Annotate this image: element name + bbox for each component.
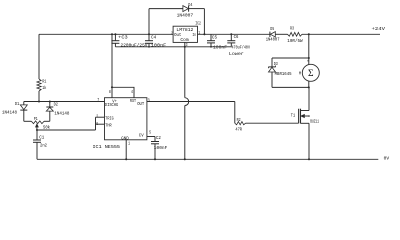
wire down to motor top bbox=[308, 58, 310, 65]
wire hop over OUT wire bbox=[185, 98, 189, 106]
svg-text:2200uF/25V: 2200uF/25V bbox=[121, 42, 148, 48]
svg-text:P1: P1 bbox=[34, 116, 38, 122]
transistor T1 body arrow bbox=[301, 115, 304, 118]
svg-text:47R: 47R bbox=[235, 127, 242, 133]
svg-text:+C3: +C3 bbox=[118, 35, 128, 41]
wire CV pin to C2 bbox=[147, 136, 155, 138]
junction motor branch on rail bbox=[308, 33, 310, 35]
wire D1 anode lead bbox=[23, 102, 25, 105]
wire D4 left leg bbox=[148, 9, 150, 35]
wire R2 to gate bbox=[246, 122, 299, 124]
wire IC2 Com down upper bbox=[184, 42, 186, 97]
svg-text:R2: R2 bbox=[237, 117, 241, 123]
resistor R1 bbox=[37, 79, 41, 91]
wire IC2 Com down lower bbox=[184, 106, 186, 160]
svg-text:D5: D5 bbox=[270, 26, 274, 32]
capacitor C3 2200uF/25V bbox=[114, 34, 116, 40]
wire top rail middle segment (raw +24V to regulator In) bbox=[198, 33, 270, 35]
svg-text:2: 2 bbox=[96, 114, 98, 120]
wire D3 cathode lead bbox=[271, 72, 273, 87]
wire D3 anode lead bbox=[271, 58, 273, 67]
svg-text:470uF/40V: 470uF/40V bbox=[232, 44, 251, 50]
diode D5 1N4007 bbox=[269, 32, 271, 37]
motor M1 circle bbox=[302, 64, 319, 81]
junction D3 top bbox=[308, 57, 310, 59]
wire D3 bottom bbox=[272, 86, 309, 88]
junction C4 tie bbox=[148, 46, 150, 48]
svg-text:T1: T1 bbox=[291, 112, 296, 118]
capacitor C2 100nF bbox=[151, 141, 159, 143]
svg-text:2n2: 2n2 bbox=[40, 142, 47, 148]
junction C3 on rail bbox=[114, 33, 116, 35]
svg-text:10R/5W: 10R/5W bbox=[287, 38, 303, 44]
op-amp-box IC2 LM7812 body bbox=[173, 26, 197, 42]
svg-text:1: 1 bbox=[198, 30, 200, 36]
potentiometer P1 body bbox=[31, 121, 44, 124]
svg-text:100nF: 100nF bbox=[154, 145, 168, 151]
wire D4 right leg bbox=[203, 9, 205, 35]
svg-text:+: + bbox=[307, 60, 309, 65]
svg-text:100nF: 100nF bbox=[151, 42, 167, 48]
capacitor C5 100nF bbox=[210, 34, 212, 40]
wire IC1 GND pin to rail bbox=[125, 140, 127, 160]
resistor R3 bbox=[288, 32, 303, 36]
svg-text:C4: C4 bbox=[151, 34, 156, 40]
wire ground rail 0V bbox=[37, 158, 378, 160]
svg-text:OUT: OUT bbox=[137, 101, 144, 107]
svg-text:D1: D1 bbox=[15, 101, 20, 107]
junction T1 body bbox=[308, 115, 310, 117]
svg-text:3: 3 bbox=[148, 98, 150, 104]
svg-text:2: 2 bbox=[171, 30, 173, 36]
svg-text:R1: R1 bbox=[42, 78, 46, 84]
wire top rail left segment (+12V net) bbox=[39, 33, 173, 35]
svg-text:D3: D3 bbox=[274, 61, 278, 67]
capacitor C4 100nF bbox=[148, 34, 150, 40]
wire wiper junction to pins bbox=[37, 129, 96, 131]
svg-text:M: M bbox=[299, 71, 301, 77]
svg-text:TRIG: TRIG bbox=[105, 115, 114, 121]
wire T1 drain up bbox=[308, 87, 310, 110]
junction V+ drop on rail bbox=[111, 33, 113, 35]
diode D1 1N4148 bbox=[20, 105, 27, 110]
svg-text:In: In bbox=[192, 32, 196, 38]
wire +12V rail down to IC1 supply loop bbox=[111, 34, 113, 87]
wire pins connector vertical bbox=[95, 117, 97, 130]
svg-text:1N4007: 1N4007 bbox=[177, 13, 194, 19]
wire R3 to +24V terminal bbox=[302, 33, 380, 35]
svg-text:LM7812: LM7812 bbox=[176, 27, 193, 33]
wire T1 drain lead bbox=[300, 110, 309, 112]
diode D4 1N4007 bbox=[183, 6, 189, 12]
wire D4 top left bbox=[149, 8, 183, 10]
svg-text:1N4148: 1N4148 bbox=[2, 110, 17, 116]
svg-text:Σ: Σ bbox=[308, 69, 314, 79]
svg-text:DISCHG: DISCHG bbox=[105, 102, 119, 108]
junction C5 tie bbox=[210, 46, 212, 48]
wire R1 bottom to node A bbox=[38, 91, 40, 102]
svg-text:8: 8 bbox=[109, 89, 111, 95]
svg-text:Lower: Lower bbox=[229, 51, 244, 57]
svg-text:C5: C5 bbox=[212, 35, 217, 41]
svg-text:1N4148: 1N4148 bbox=[54, 110, 69, 116]
diode D2 1N4148 bbox=[46, 106, 53, 108]
wire IC1 OUT bbox=[147, 101, 235, 103]
junction D2 node A bbox=[49, 100, 51, 102]
junction IC2 Com on ground rail bbox=[184, 158, 186, 160]
svg-text:5: 5 bbox=[149, 130, 151, 136]
svg-text:IC2: IC2 bbox=[195, 20, 201, 26]
wire T1 source down bbox=[308, 123, 310, 159]
wire D5 anode to R3 bbox=[275, 33, 287, 35]
wire rail down to motor bbox=[308, 34, 310, 58]
wire D2 to P1 right bbox=[44, 120, 50, 122]
svg-text:100nF: 100nF bbox=[213, 44, 227, 50]
svg-text:C6: C6 bbox=[234, 34, 239, 40]
svg-text:1N4007: 1N4007 bbox=[266, 37, 280, 43]
junction motor bottom bbox=[308, 86, 310, 88]
diode D3 MBR1645 schottky bbox=[268, 66, 275, 68]
wire D3 top bbox=[272, 57, 309, 59]
junction IC1 GND on rail bbox=[125, 158, 127, 160]
junction C2 on rail bbox=[154, 158, 156, 160]
svg-text:3: 3 bbox=[186, 42, 188, 48]
junction V+ loop bbox=[111, 86, 113, 88]
svg-text:Com: Com bbox=[180, 37, 188, 43]
wire D4 top right bbox=[189, 8, 205, 10]
svg-text:0V: 0V bbox=[384, 156, 390, 162]
svg-text:MBR1645: MBR1645 bbox=[275, 71, 292, 77]
wire motor bottom lead bbox=[308, 81, 310, 88]
svg-text:4: 4 bbox=[131, 89, 133, 95]
svg-text:C2: C2 bbox=[156, 135, 161, 141]
wire node A bbox=[24, 101, 105, 103]
svg-text:THR: THR bbox=[105, 122, 112, 128]
junction R1 node A bbox=[38, 100, 40, 102]
svg-text:IC1 NE555: IC1 NE555 bbox=[93, 144, 121, 150]
transistor T1 gate bar bbox=[298, 109, 300, 124]
svg-text:CV: CV bbox=[139, 133, 144, 139]
wire D1 to P1 left bbox=[24, 120, 32, 122]
wire T1 source lead bbox=[300, 122, 309, 124]
wire +12V rail corner down to R1 bbox=[38, 34, 40, 79]
wire OUT down to R2 bbox=[234, 102, 236, 124]
wire capacitor bottom tie bbox=[115, 46, 231, 48]
op-amp-box IC1 NE555 body bbox=[105, 98, 147, 140]
potentiometer P1 wiper arrow bbox=[36, 124, 38, 127]
wire pin2 stub bbox=[96, 116, 105, 118]
junction tie to IC2 Com bbox=[184, 46, 186, 48]
wire D2 cathode lead bbox=[49, 102, 51, 108]
svg-text:+24V: +24V bbox=[372, 26, 386, 32]
svg-text:D4: D4 bbox=[188, 2, 192, 8]
capacitor C6 470uF/40V bbox=[230, 34, 232, 40]
resistor R2 bbox=[235, 122, 246, 125]
svg-text:C1: C1 bbox=[39, 134, 44, 140]
junction C6 on rail bbox=[230, 33, 232, 35]
wire IC1 supply loop bbox=[112, 87, 134, 97]
junction wiper node bbox=[36, 129, 38, 131]
wire pin6 stub bbox=[96, 123, 105, 125]
junction C4/D4 on rail bbox=[148, 33, 150, 35]
svg-text:1k: 1k bbox=[42, 85, 46, 91]
svg-text:R3: R3 bbox=[290, 26, 294, 32]
svg-text:1: 1 bbox=[128, 140, 130, 146]
svg-text:RST: RST bbox=[130, 98, 136, 104]
transistor T1 channel bar bbox=[299, 109, 301, 124]
junction D4 right on rail bbox=[203, 33, 205, 35]
capacitor C1 2n2 bbox=[36, 130, 38, 140]
svg-text:BUZ11: BUZ11 bbox=[310, 119, 319, 125]
wire D2 anode lead bbox=[49, 111, 51, 121]
junction T1 source on rail bbox=[308, 158, 310, 160]
wire D1 cathode lead bbox=[23, 110, 25, 121]
svg-text:D2: D2 bbox=[54, 102, 59, 108]
